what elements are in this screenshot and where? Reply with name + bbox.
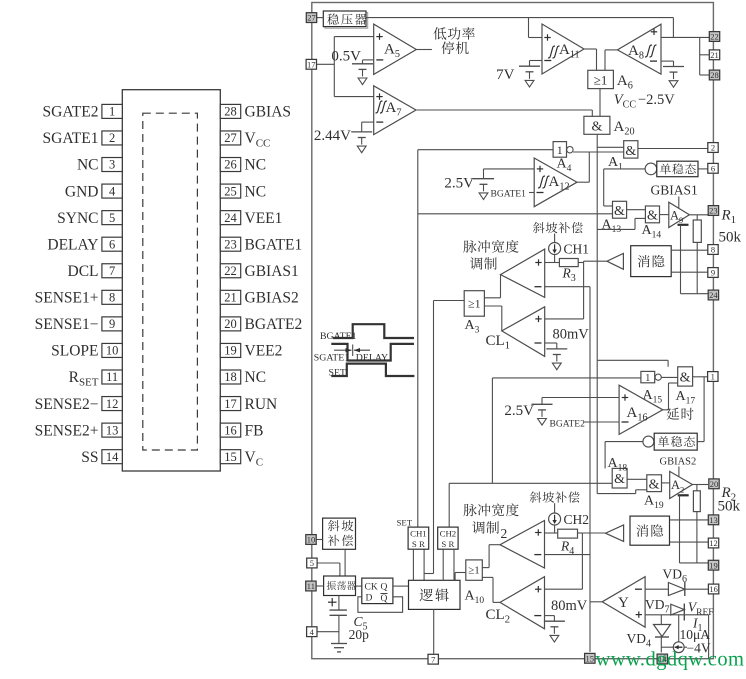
svg-text:12: 12 [709, 538, 718, 548]
svg-text:SENSE2+: SENSE2+ [35, 422, 99, 439]
svg-text:RUN: RUN [245, 396, 278, 413]
svg-text:≥1: ≥1 [468, 297, 481, 311]
svg-text:VEE1: VEE1 [245, 210, 283, 227]
svg-text:10: 10 [106, 344, 119, 358]
svg-text:15: 15 [586, 653, 595, 663]
svg-text:19: 19 [224, 344, 237, 358]
svg-text:18: 18 [224, 370, 237, 384]
svg-text:≥1: ≥1 [468, 565, 480, 577]
svg-text:&: & [625, 144, 636, 159]
svg-text:15: 15 [224, 450, 237, 464]
svg-text:SGATE1: SGATE1 [314, 353, 349, 364]
svg-text:28: 28 [710, 70, 719, 80]
svg-text:Q: Q [381, 583, 388, 593]
svg-text:&: & [591, 120, 602, 135]
svg-text:20p: 20p [349, 627, 370, 642]
svg-text:17: 17 [224, 397, 237, 411]
svg-text:GND: GND [65, 183, 99, 200]
svg-text:CK: CK [365, 583, 378, 593]
svg-text:50k: 50k [718, 499, 741, 515]
svg-text:SS: SS [81, 449, 98, 466]
svg-text:24: 24 [709, 290, 718, 300]
svg-text:2.5V: 2.5V [504, 403, 534, 419]
svg-text:9: 9 [109, 317, 115, 331]
svg-text:50k: 50k [719, 230, 742, 246]
svg-text:14: 14 [106, 450, 119, 464]
svg-text:2.5V: 2.5V [444, 176, 474, 192]
svg-text:16: 16 [709, 584, 718, 594]
svg-text:12: 12 [106, 397, 119, 411]
svg-text:16: 16 [224, 423, 237, 437]
svg-text:2: 2 [501, 526, 508, 541]
svg-text:FB: FB [245, 422, 264, 439]
svg-text:SENSE1+: SENSE1+ [35, 290, 99, 307]
svg-text:BGATE2: BGATE2 [550, 420, 586, 430]
svg-text:&: & [614, 204, 625, 219]
svg-text:4: 4 [109, 184, 116, 198]
svg-text:28: 28 [224, 105, 237, 119]
svg-text:1: 1 [109, 105, 115, 119]
svg-text:24: 24 [224, 211, 237, 225]
svg-text:GBIAS: GBIAS [245, 104, 292, 121]
svg-text:8: 8 [109, 291, 115, 305]
svg-text:SET: SET [397, 518, 413, 528]
svg-text:7V: 7V [496, 67, 515, 83]
svg-text:NC: NC [245, 157, 267, 174]
svg-text:7: 7 [109, 264, 115, 278]
svg-text:5: 5 [109, 211, 115, 225]
svg-text:19: 19 [709, 560, 718, 570]
svg-text:23: 23 [224, 237, 237, 251]
svg-text:27: 27 [307, 13, 316, 23]
svg-text:80mV: 80mV [553, 327, 590, 343]
svg-text:SENSE1−: SENSE1− [35, 316, 99, 333]
svg-text:25: 25 [224, 184, 237, 198]
svg-text:6: 6 [711, 163, 715, 173]
svg-text:5: 5 [310, 558, 314, 568]
svg-text:DELAY: DELAY [47, 236, 98, 253]
svg-text:BGATE1: BGATE1 [320, 331, 357, 342]
svg-text:DELAY: DELAY [356, 353, 388, 364]
svg-text:26: 26 [224, 158, 237, 172]
svg-text:www.dgdqw.com: www.dgdqw.com [596, 649, 745, 671]
svg-text:13: 13 [709, 515, 718, 525]
svg-text:11: 11 [106, 370, 118, 384]
svg-text:3: 3 [109, 158, 115, 172]
svg-text:8: 8 [711, 245, 715, 255]
svg-text:Y: Y [618, 595, 629, 611]
svg-text:&: & [649, 478, 660, 493]
svg-text:10: 10 [307, 535, 316, 545]
svg-text:SGATE2: SGATE2 [43, 104, 99, 121]
svg-text:CH1: CH1 [564, 242, 590, 257]
svg-text:23: 23 [709, 206, 718, 216]
svg-text:20: 20 [224, 317, 237, 331]
svg-text:CH2: CH2 [564, 512, 590, 527]
svg-text:27: 27 [224, 131, 237, 145]
svg-text:&: & [614, 472, 625, 487]
svg-text:NC: NC [245, 369, 267, 386]
svg-text:SGATE1: SGATE1 [43, 130, 99, 147]
svg-text:7: 7 [431, 654, 435, 664]
svg-text:21: 21 [710, 50, 719, 60]
svg-text:SENSE2−: SENSE2− [35, 396, 99, 413]
svg-text:CH1: CH1 [410, 528, 427, 538]
svg-text:SLOPE: SLOPE [51, 343, 98, 360]
svg-text:S R: S R [441, 539, 454, 549]
svg-text:S R: S R [412, 539, 425, 549]
svg-text:SET: SET [329, 368, 346, 379]
svg-text:NC: NC [245, 183, 267, 200]
svg-text:13: 13 [106, 423, 119, 437]
svg-text:17: 17 [307, 59, 316, 69]
svg-text:−2.5V: −2.5V [638, 92, 675, 108]
svg-text:9: 9 [711, 268, 715, 278]
svg-text:GBIAS1: GBIAS1 [651, 183, 698, 198]
svg-text:DCL: DCL [68, 263, 99, 280]
svg-text:NC: NC [77, 157, 99, 174]
svg-text:D: D [366, 594, 373, 604]
svg-text:Q: Q [381, 594, 388, 604]
svg-text:2: 2 [711, 143, 715, 153]
svg-text:20: 20 [710, 479, 719, 489]
svg-text:GBIAS1: GBIAS1 [245, 263, 299, 280]
svg-text:BGATE1: BGATE1 [491, 190, 527, 200]
svg-text:CH2: CH2 [440, 528, 457, 538]
svg-text:BGATE1: BGATE1 [245, 236, 303, 253]
svg-text:2: 2 [109, 131, 115, 145]
svg-text:2.44V: 2.44V [314, 128, 351, 144]
svg-text:≥1: ≥1 [594, 73, 608, 88]
svg-text:GBIAS2: GBIAS2 [660, 457, 697, 468]
svg-text:22: 22 [224, 264, 237, 278]
svg-text:22: 22 [710, 32, 719, 42]
svg-text:VEE2: VEE2 [245, 343, 283, 360]
svg-text:1: 1 [645, 373, 650, 384]
svg-text:11: 11 [307, 581, 315, 591]
svg-text:21: 21 [224, 291, 237, 305]
svg-text:1: 1 [557, 143, 563, 157]
svg-text:6: 6 [109, 237, 115, 251]
svg-text:&: & [680, 371, 691, 386]
svg-text:SYNC: SYNC [57, 210, 98, 227]
svg-text:4: 4 [310, 627, 315, 637]
svg-text:BGATE2: BGATE2 [245, 316, 303, 333]
svg-text:GBIAS2: GBIAS2 [245, 290, 299, 307]
svg-text:1: 1 [711, 372, 715, 382]
svg-text:&: & [647, 209, 658, 224]
svg-text:0.5V: 0.5V [331, 49, 361, 65]
svg-text:80mV: 80mV [551, 598, 588, 614]
